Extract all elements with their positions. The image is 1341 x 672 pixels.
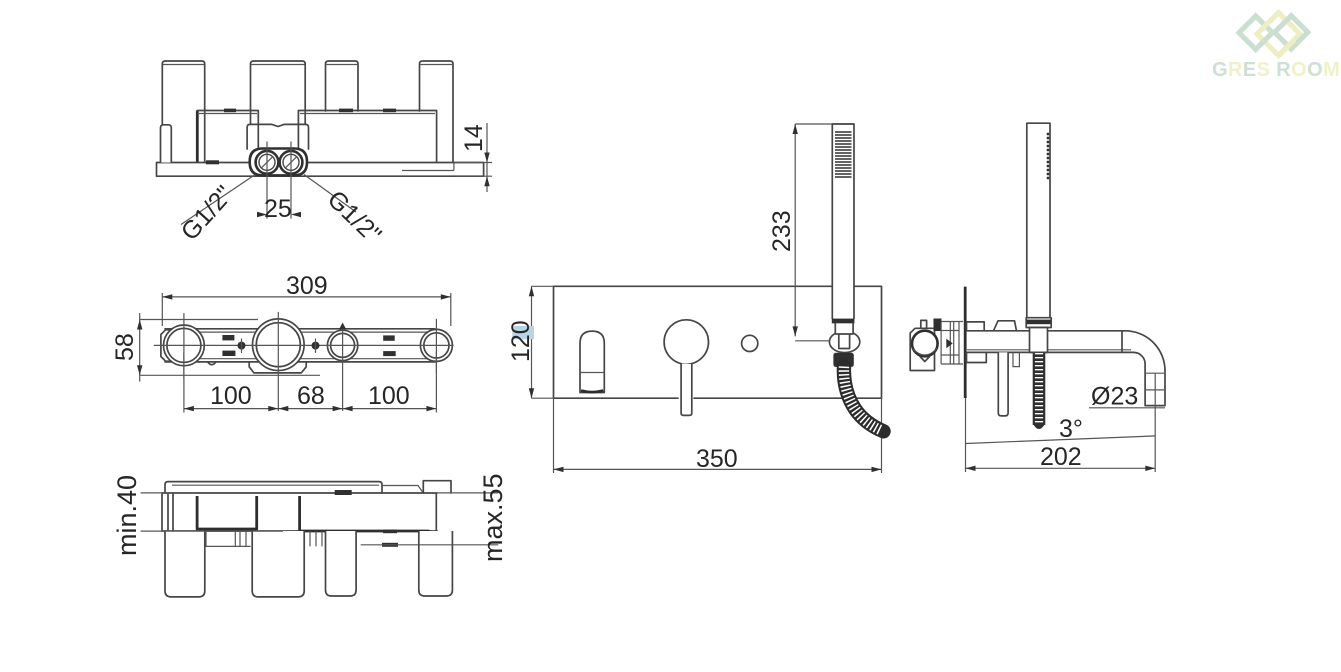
leg 1	[165, 531, 205, 597]
bracket detail left	[206, 531, 251, 546]
wall plate	[964, 287, 967, 398]
block C	[298, 111, 436, 163]
leg 4	[420, 61, 454, 163]
cartridge mid lines	[941, 331, 959, 356]
left circle	[164, 325, 205, 366]
rod bottom dark band	[1027, 320, 1051, 325]
holder nut	[835, 323, 853, 349]
top slab inner edge	[172, 484, 379, 486]
svg-text:120: 120	[507, 320, 535, 362]
small bump under bar	[208, 362, 216, 365]
top bump rect	[967, 322, 985, 331]
bar dark dash	[206, 160, 219, 164]
leader G1/2 left	[181, 175, 255, 225]
inlet circle left G1/2	[256, 151, 279, 174]
hanging block A	[197, 496, 257, 529]
top trapezoid	[994, 321, 1017, 331]
dimension 58	[111, 313, 320, 382]
arrow tip on third circle line	[339, 323, 346, 330]
vertical centerline left circle	[183, 313, 185, 379]
manifold stadium	[250, 149, 307, 176]
svg-text:58: 58	[111, 333, 139, 361]
body tube and spout bend	[967, 331, 1165, 406]
svg-text:100: 100	[368, 382, 410, 410]
node dot left	[238, 342, 246, 350]
handle lower arc	[913, 349, 937, 356]
hose side corrugated	[1033, 353, 1046, 425]
handle stem top	[921, 320, 927, 328]
big circle	[252, 319, 304, 371]
dimension 350	[554, 398, 882, 473]
handle notch	[920, 357, 930, 362]
center manifold block B	[247, 124, 308, 149]
dimension 233	[768, 124, 853, 341]
svg-text:14: 14	[460, 124, 488, 152]
leg 3	[326, 61, 359, 111]
leg 3	[326, 531, 357, 596]
tube seam line	[1121, 331, 1123, 353]
plate	[554, 286, 882, 398]
left end cap	[161, 125, 172, 163]
left cap	[168, 493, 173, 531]
block C top dashes	[339, 109, 353, 113]
bar left chamfer plate	[161, 330, 170, 361]
svg-text:Ø23: Ø23	[1091, 383, 1138, 411]
yellow weave over right diamond	[1284, 40, 1295, 51]
handle circle	[664, 320, 708, 364]
leg 4	[419, 531, 453, 596]
handle clamp dark	[934, 319, 942, 332]
dimension 14	[454, 123, 493, 192]
svg-text:100: 100	[210, 382, 252, 410]
leg 2	[252, 531, 304, 597]
dimension 120	[507, 286, 554, 398]
node dot right	[312, 342, 320, 350]
inlet circle right G1/2	[280, 151, 303, 174]
svg-text:25: 25	[264, 195, 292, 223]
svg-text:G1/2": G1/2"	[176, 180, 239, 246]
diamond green right	[1275, 16, 1308, 49]
dark dashes right	[383, 530, 397, 534]
base bar step right	[402, 163, 454, 171]
base bar	[157, 163, 484, 177]
max.55 label	[361, 473, 508, 562]
svg-text:GRES ROOM: GRES ROOM	[1212, 59, 1340, 81]
min.40 label	[112, 475, 283, 556]
shower rod side	[1027, 123, 1050, 327]
third circle	[327, 330, 357, 360]
leg 1	[162, 61, 204, 163]
clip rects right	[383, 335, 395, 340]
vertical centerline right circle	[435, 319, 437, 374]
dimension 25	[257, 142, 301, 224]
horizontal centerline	[154, 344, 454, 346]
svg-text:202: 202	[1040, 443, 1082, 471]
svg-text:min.40: min.40	[112, 475, 142, 556]
bracket under big circle	[249, 362, 306, 373]
leader G1/2 right	[304, 175, 356, 213]
svg-text:max.55: max.55	[478, 473, 508, 562]
under-tube step right of lever	[1013, 352, 1019, 366]
rod through tube	[1030, 328, 1048, 353]
block A	[196, 111, 199, 163]
clip rects left	[222, 335, 234, 340]
right circle	[420, 329, 452, 361]
leg 2	[251, 61, 306, 124]
angle line 3deg	[966, 436, 1156, 444]
spout	[580, 331, 604, 392]
hanging block B	[300, 496, 437, 534]
svg-text:3°: 3°	[1059, 415, 1083, 443]
hose nut dark	[833, 353, 853, 367]
rod dotted band	[1047, 133, 1050, 180]
hand shower rod front	[832, 124, 854, 319]
svg-text:68: 68	[297, 382, 325, 410]
vertical centerline big circle	[277, 312, 279, 411]
cartridge lines	[941, 322, 963, 365]
spout end bands	[1145, 373, 1165, 390]
dimension 309	[162, 272, 451, 326]
flow triangle	[946, 339, 952, 349]
under-tube block	[967, 352, 987, 362]
yellow weave over left diamond	[1262, 19, 1273, 30]
hose	[844, 367, 884, 432]
diverter circle	[742, 335, 758, 351]
shower rod bottom dark band	[832, 319, 855, 324]
diamond yellow center	[1257, 13, 1300, 56]
block A top dash	[224, 109, 236, 113]
shower hatch band	[835, 132, 852, 177]
body bar	[165, 329, 449, 362]
holder ring	[829, 331, 859, 352]
slab top dash	[335, 490, 352, 495]
hose tip	[1033, 424, 1045, 429]
svg-text:350: 350	[696, 445, 738, 473]
dimension 202	[966, 398, 1156, 472]
svg-text:309: 309	[286, 272, 328, 300]
diamond green left	[1239, 16, 1272, 49]
main slab	[162, 493, 437, 531]
lever side	[998, 352, 1008, 416]
handle lever	[681, 364, 692, 416]
vertical centerline third circle	[342, 324, 344, 411]
spout axis centerline	[1154, 374, 1156, 473]
spout aerator dark	[581, 391, 603, 393]
dimension 100 68 100	[184, 352, 437, 413]
rod nut	[1026, 318, 1051, 328]
svg-text:G1/2": G1/2"	[322, 185, 387, 249]
bar inner lines	[168, 332, 445, 359]
top slab	[165, 482, 382, 493]
svg-text:233: 233	[768, 210, 796, 252]
handle circle	[912, 331, 938, 357]
tube inner bottom line	[967, 349, 1131, 351]
bracket detail mid	[310, 531, 322, 546]
handle block plate	[910, 328, 934, 370]
